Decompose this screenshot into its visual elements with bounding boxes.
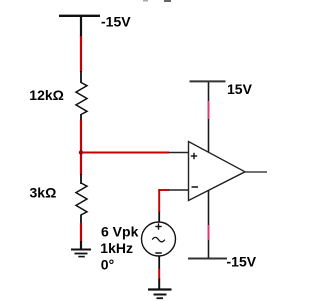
wire: VEE1 to R1 top (red) (80, 36, 82, 72)
resistor R2 3k zigzag body (76, 183, 87, 215)
ground GND1 bar 3 (78, 256, 85, 258)
wire: node A to op-amp + input (red horizontal) (81, 152, 169, 154)
source V1 top pin (black) (158, 211, 160, 223)
op-amp U1 plus sign (191, 155, 197, 157)
ground GND1 bar 1 (71, 249, 91, 251)
power symbol VEE2 -15V bar (188, 258, 227, 260)
svg-text:6 Vpk: 6 Vpk (101, 224, 139, 240)
ground GND2 bar 3 (157, 297, 164, 299)
svg-text:15V: 15V (227, 81, 253, 97)
source V1 circle (142, 222, 176, 256)
power symbol VCC 15V bar (190, 80, 226, 82)
svg-text:0°: 0° (101, 256, 114, 272)
op-amp U1 minus input pin (black) (169, 189, 189, 191)
svg-text:-15V: -15V (101, 14, 131, 30)
power symbol VEE1 -15V (top left) bar (59, 15, 100, 17)
op-amp VEE pin (black) (208, 190, 210, 258)
op-amp U1 + input pin (black) (169, 152, 189, 154)
source V1 bottom pin (black) (158, 256, 160, 270)
wire: source top to corner (red) (158, 190, 160, 213)
resistor R2 3k top lead (80, 174, 82, 184)
resistor R1 12k zigzag body (76, 83, 87, 115)
resistor R1 12k bottom lead (80, 114, 82, 121)
resistor R1 12k top lead (80, 71, 82, 83)
svg-text:3kΩ: 3kΩ (30, 185, 57, 201)
op-amp U1 minus sign (192, 186, 199, 188)
ground GND2 bar 1 (148, 288, 172, 290)
op-amp U1 triangle (189, 142, 246, 201)
cropped text remnant top edge (143, 0, 148, 2)
svg-text:12kΩ: 12kΩ (29, 87, 64, 103)
ground GND2 bar 2 (154, 294, 167, 296)
wire: source bottom to ground (red) (158, 269, 160, 280)
ground GND1 bar 2 (75, 253, 88, 255)
node A junction dot (79, 150, 83, 154)
wire: R2 to ground GND1 (red) (80, 223, 82, 242)
op-amp VCC pin (black) (208, 82, 210, 152)
source V1 sine symbol (152, 237, 165, 241)
svg-text:-15V: -15V (227, 254, 257, 270)
op-amp U1 output wire (245, 171, 267, 173)
ground GND2 stem (158, 279, 160, 290)
wire: R1 to node A (red) (80, 120, 82, 175)
source V1 plus sign (155, 226, 161, 228)
wire red segment on VCC pin (208, 101, 210, 119)
wire red segment on VEE pin (208, 225, 210, 240)
wire: corner to op-amp minus pin (red) (158, 189, 169, 191)
power symbol VEE1 stem (80, 16, 82, 37)
source V1 minus sign (155, 252, 161, 254)
ground GND1 stem (80, 241, 82, 250)
resistor R2 3k bottom lead (80, 215, 82, 225)
svg-text:1kHz: 1kHz (100, 240, 133, 256)
